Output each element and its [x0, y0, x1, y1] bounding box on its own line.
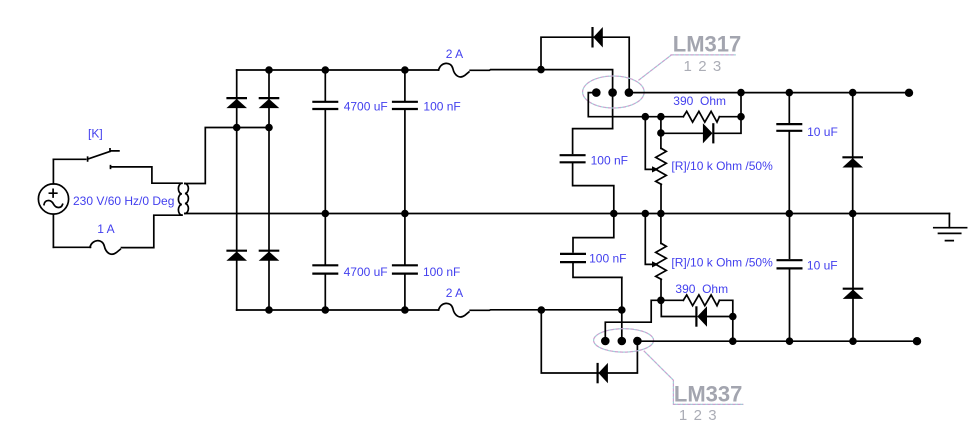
- junction ADJ/pot top: [657, 113, 665, 121]
- diode D7 output clamp top: [842, 93, 863, 214]
- wire bridge column A: [236, 70, 238, 310]
- wire bottom primary loop: [53, 215, 182, 247]
- regulator U2 LM337 pins 1 2 3: [594, 329, 654, 352]
- wire secondary top to bridge: [185, 128, 269, 184]
- wire output to ADJ divider: [713, 93, 741, 134]
- svg-text:100 nF: 100 nF: [591, 153, 628, 167]
- junction -out/C8: [786, 337, 794, 345]
- fuse F1 1 A: [90, 241, 120, 255]
- junction +out/C6: [786, 89, 794, 97]
- wire bottom rail left: [237, 309, 439, 311]
- svg-text:10 uF: 10 uF: [807, 258, 838, 272]
- junction GND/C6: [786, 210, 794, 218]
- switch [K]: [53, 149, 182, 183]
- junction -rail/C7: [618, 306, 626, 314]
- callout LM337: [644, 351, 744, 405]
- junction +rail/C1: [322, 66, 330, 74]
- terminal -out: [913, 337, 921, 345]
- junction GND/C5: [610, 210, 618, 218]
- junction GND/C2: [401, 210, 409, 218]
- junction -rail/C3: [322, 306, 330, 314]
- fuse F3 2 A bottom: [439, 303, 469, 317]
- capacitor C7 100 nF LM337 input: [560, 214, 622, 278]
- wire ADJ LM317: [588, 93, 683, 117]
- capacitor C5 100 nF LM317 input: [560, 129, 614, 214]
- junction ADJ/R1: [737, 113, 745, 121]
- potentiometer R3 10k bottom: [645, 214, 666, 301]
- wire bridge column B: [268, 70, 270, 310]
- resistor R1 390 Ohm top: [683, 111, 719, 122]
- terminal +out: [905, 89, 913, 97]
- diode D5 protection LM317: [541, 27, 629, 93]
- svg-text:390 Ohm: 390 Ohm: [673, 94, 726, 108]
- diode D2: [259, 98, 280, 108]
- svg-text:LM317: LM317: [673, 32, 741, 57]
- wire bottom rail right: [470, 309, 622, 312]
- junction -out/D10: [849, 337, 857, 345]
- svg-text:230 V/60 Hz/0 Deg: 230 V/60 Hz/0 Deg: [73, 194, 174, 208]
- wire -output line: [637, 340, 917, 342]
- potentiometer R2 10k top: [645, 117, 666, 214]
- fuse F2 2 A top: [439, 63, 469, 77]
- junction -rail/C4: [401, 306, 409, 314]
- ground symbol: [934, 214, 967, 241]
- svg-text:100 nF: 100 nF: [423, 99, 460, 113]
- capacitor C3 4700 uF bottom: [312, 214, 338, 311]
- junction -rail/D4: [265, 306, 273, 314]
- wire ADJ LM337: [605, 300, 661, 341]
- capacitor C6 10 uF top: [776, 93, 802, 214]
- svg-text:2 A: 2 A: [446, 286, 463, 300]
- junction +out/D7: [849, 89, 857, 97]
- callout LM317: [639, 55, 736, 80]
- junction D9/R4: [729, 313, 737, 321]
- junction ADJ/pot bottom: [657, 297, 665, 305]
- svg-text:100 nF: 100 nF: [589, 252, 626, 266]
- svg-text:[K]: [K]: [88, 126, 103, 140]
- wire top rail right: [470, 70, 612, 129]
- capacitor C4 100 nF bottom: [392, 214, 418, 311]
- junction +rail/D5: [537, 66, 545, 74]
- ac source V1 230 V/60 Hz/0 Deg: [38, 159, 68, 247]
- junction GND/D7: [849, 210, 857, 218]
- junction -rail/D8: [538, 306, 546, 314]
- svg-text:2 A: 2 A: [446, 47, 463, 61]
- junction pot/D6: [657, 129, 665, 137]
- node AC secondary a: [233, 124, 241, 132]
- wire pot top branch: [660, 117, 662, 149]
- svg-text:100 nF: 100 nF: [423, 265, 460, 279]
- junction -out/R4: [729, 337, 737, 345]
- svg-text:1 2 3: 1 2 3: [684, 58, 723, 75]
- junction GND/pots: [657, 210, 665, 218]
- junction GND/C1: [322, 210, 330, 218]
- svg-text:1 A: 1 A: [97, 222, 114, 236]
- diode D8 protection LM337: [541, 310, 637, 383]
- diode D9 ADJ-OUT bottom: [661, 300, 733, 326]
- wire +output line: [629, 92, 909, 94]
- diode D6 ADJ-OUT top: [661, 123, 713, 143]
- wire GND center line: [185, 213, 950, 215]
- resistor R4 390 Ohm bottom: [661, 299, 683, 301]
- svg-text:[R]/10 k Ohm /50%: [R]/10 k Ohm /50%: [671, 159, 773, 173]
- wire bottom rail to pin2 LM337: [621, 277, 623, 341]
- regulator U1 LM317 pins 1 2 3: [583, 76, 645, 108]
- svg-text:4700 uF: 4700 uF: [344, 265, 388, 279]
- diode D4: [259, 251, 280, 261]
- junction GND/wiper: [642, 210, 650, 218]
- node AC secondary b: [265, 124, 273, 132]
- svg-text:10 uF: 10 uF: [807, 125, 838, 139]
- diode D3: [226, 251, 247, 261]
- svg-text:1 2 3: 1 2 3: [679, 407, 718, 424]
- junction +out/R1: [737, 89, 745, 97]
- svg-text:[R]/10 k Ohm /50%: [R]/10 k Ohm /50%: [671, 256, 773, 270]
- capacitor C8 10 uF bottom: [777, 214, 803, 342]
- capacitor C1 4700 uF top: [312, 70, 338, 214]
- capacitor C2 100 nF top: [392, 70, 418, 214]
- junction +rail/C2: [401, 66, 409, 74]
- svg-text:390 Ohm: 390 Ohm: [675, 282, 728, 296]
- junction ADJ/wiper top: [642, 113, 650, 121]
- wire top rail left: [237, 69, 439, 71]
- svg-text:LM337: LM337: [674, 382, 742, 407]
- junction +rail/D2: [265, 66, 273, 74]
- svg-text:4700 uF: 4700 uF: [344, 99, 388, 113]
- diode D10 output clamp bottom: [843, 214, 864, 342]
- diode D1: [226, 98, 247, 108]
- transformer T1: [178, 183, 188, 215]
